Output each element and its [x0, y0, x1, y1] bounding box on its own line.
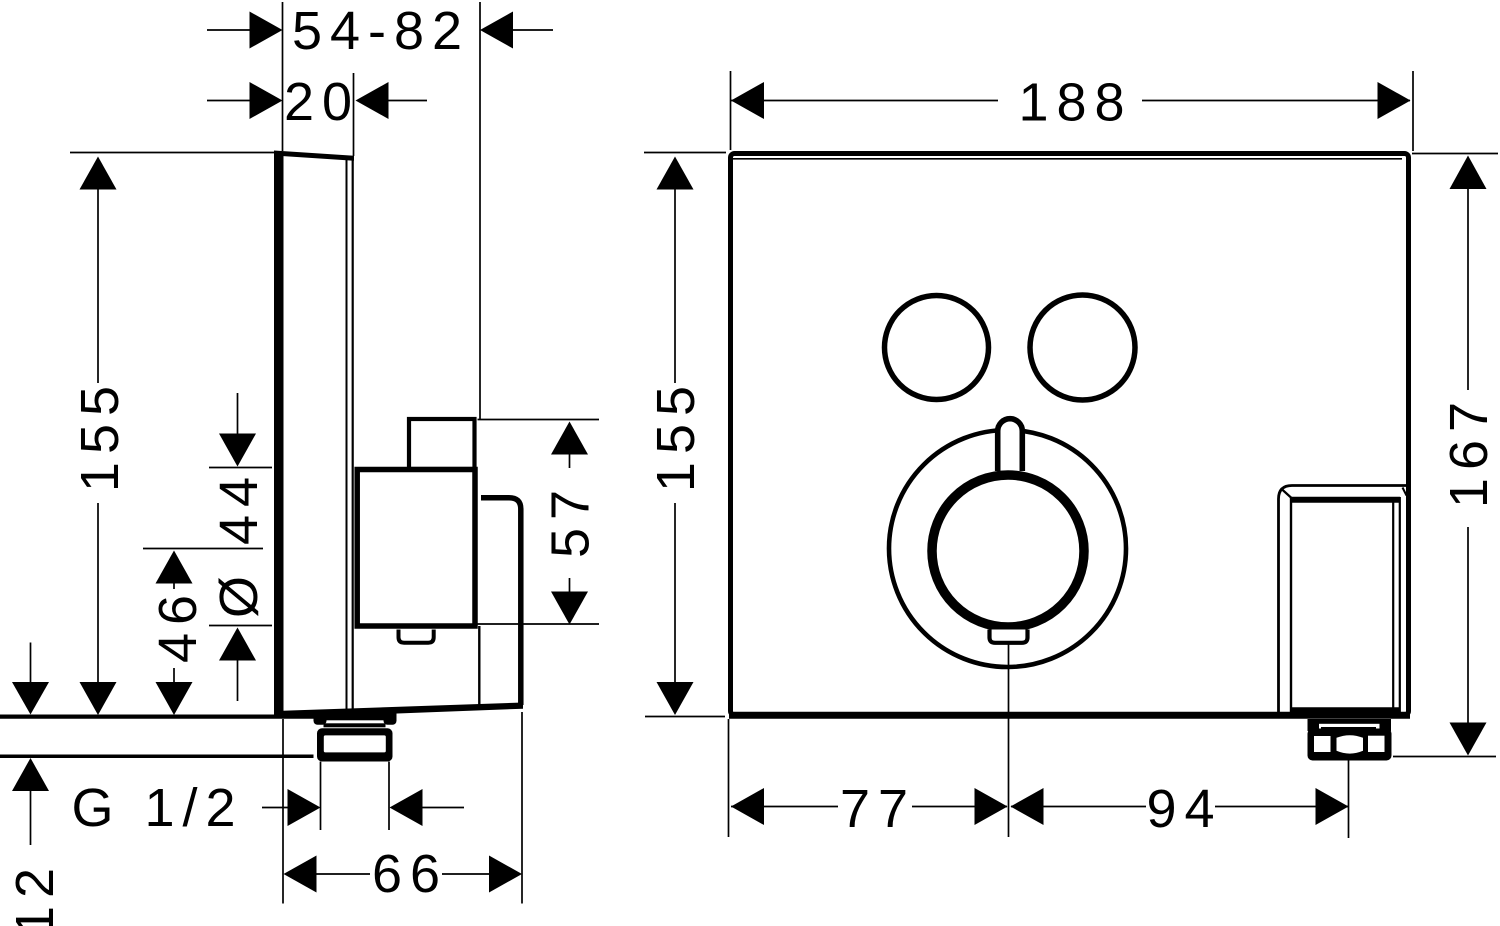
arrow 77 right (to centre) — [975, 788, 1008, 825]
arrow 57 up — [551, 422, 588, 455]
dim line 155 left upper segment — [97, 189, 99, 383]
dim line 66 right segment — [442, 873, 490, 875]
dim line 12 lower tail — [30, 791, 32, 845]
holder face left edge — [1290, 497, 1292, 712]
thermostat knob outer ring — [889, 430, 1126, 667]
dim line 155 left lower segment — [97, 503, 99, 682]
dim line 94 segment a — [1011, 806, 1146, 808]
side view: wall line lower (12mm offset) — [0, 754, 314, 758]
thermostat knob bottom grip tab — [990, 630, 1028, 643]
connector: rim line — [324, 723, 386, 727]
nut hex body — [1308, 729, 1392, 761]
dim line 188 left segment — [731, 100, 998, 102]
arrow 46 down — [156, 682, 193, 715]
dim line 155 right lower — [674, 503, 676, 682]
dim line 57 upper tail — [569, 454, 571, 468]
extension line y=624 (57 bottom) — [478, 623, 600, 625]
dim line 57 lower tail — [569, 578, 571, 592]
plate: outer right edge line — [352, 159, 354, 711]
valve body: rear housing left thin edge — [478, 626, 480, 709]
dim line 167 upper — [1467, 189, 1469, 390]
arrow 155 left down — [80, 682, 117, 715]
nut collar right side — [1380, 719, 1392, 731]
holder face outer right line — [1399, 497, 1401, 712]
plate+body: bottom slanted edge — [275, 703, 523, 719]
svg-text:54-82: 54-82 — [292, 1, 470, 61]
svg-text:12: 12 — [5, 860, 65, 926]
holder face inner right line — [1392, 500, 1394, 709]
dim line 46 upper segment — [173, 583, 175, 589]
arrow 167 down — [1450, 723, 1487, 756]
valve body: bottom clip tab — [399, 630, 434, 643]
holder face bottom edge — [1291, 707, 1400, 713]
connector: flange band — [314, 712, 397, 720]
dim line 12 upper tail — [30, 643, 32, 683]
select button right — [1030, 295, 1135, 400]
front panel top inner bevel line — [733, 158, 1402, 160]
arrow 155 left up — [80, 157, 117, 190]
arrow 77 left — [731, 788, 764, 825]
connector: threaded ring inner face — [324, 735, 386, 752]
front panel bottom edge thick — [729, 712, 1410, 719]
arrow 46 up — [156, 551, 193, 584]
extension line x=283 (66 left) — [282, 719, 284, 904]
holder top-right bevel — [1403, 488, 1407, 496]
arrow 94 right — [1316, 788, 1349, 825]
svg-text:46: 46 — [148, 587, 208, 663]
dim line 94 segment b — [1215, 806, 1348, 808]
arrow 155 right up — [657, 157, 694, 190]
extension line y=467.5 (Ø44 top) — [209, 467, 272, 469]
holder face top edge — [1291, 497, 1401, 503]
arrow 20 right — [356, 82, 389, 119]
nut neck bar — [1321, 727, 1376, 732]
dim line 20 left tail — [207, 100, 250, 102]
nut right facet window — [1368, 736, 1385, 752]
extension line 167 bottom — [1393, 756, 1496, 758]
arrow G1/2 left (right-pointing) — [288, 789, 321, 826]
arrow 12 top (down) — [12, 682, 49, 715]
dim line 167 lower — [1467, 527, 1469, 723]
svg-text:20: 20 — [284, 72, 360, 132]
dim line 77 segment b — [912, 806, 1007, 808]
arrow Ø44 top (down) — [219, 434, 256, 467]
dim line 20 right tail — [389, 100, 428, 102]
svg-text:155: 155 — [70, 378, 130, 492]
svg-text:66: 66 — [372, 844, 448, 904]
extension line 155 right bottom — [645, 716, 725, 718]
arrow 54-82 left — [250, 12, 283, 49]
dim line 188 right segment — [1142, 100, 1410, 102]
thermostat knob index notch — [998, 419, 1023, 471]
centreline nut — [1348, 759, 1350, 838]
front panel outline — [731, 154, 1409, 716]
extension line y=548.5 (46 top / valve centre) — [143, 548, 263, 550]
arrow 66 right — [489, 856, 522, 893]
arrow 188 left — [731, 82, 764, 119]
plate: left (wall) edge — [274, 152, 284, 718]
extension line 188 right / 167 top corner — [1412, 71, 1414, 151]
nut collar flange — [1308, 719, 1392, 724]
arrow 57 down — [551, 592, 588, 625]
svg-text:57: 57 — [541, 482, 601, 558]
connector: right shoulder — [384, 714, 397, 725]
svg-text:167: 167 — [1439, 394, 1499, 508]
connector: threaded ring outer — [317, 728, 393, 761]
arrow 12 bottom (up) — [12, 758, 49, 791]
connector: left shoulder — [314, 714, 327, 725]
extension line 188 left — [730, 71, 732, 150]
arrow G1/2 right (left-pointing) — [390, 789, 423, 826]
extension line x=353.5 (plate back, 20 right) — [353, 73, 355, 156]
arrow 66 left — [284, 856, 317, 893]
dim line Ø44 bottom tail — [237, 660, 239, 701]
extension line x=282.5 (plate front face, 54-82 left) — [282, 2, 284, 151]
centreline knob — [1008, 644, 1010, 837]
valve body: main box — [357, 470, 475, 627]
nut left facet window — [1314, 736, 1331, 752]
svg-text:G 1/2: G 1/2 — [71, 778, 243, 838]
arrow 20 left — [250, 82, 283, 119]
arrow 167 up — [1450, 156, 1487, 190]
select button left — [885, 296, 989, 400]
dim line 155 right upper — [674, 189, 676, 383]
dim line G1/2 left segment — [262, 807, 288, 809]
holder outer contour — [1279, 486, 1407, 717]
extension line x=522 (66 right) — [521, 712, 523, 904]
dim line 66 left segment — [316, 873, 370, 875]
nut centre facet window — [1337, 735, 1364, 753]
arrow 94 left (from centre) — [1011, 788, 1044, 825]
extension line 167 top — [1412, 153, 1498, 155]
side view: wall line upper (plate bottom level) — [0, 714, 314, 718]
extension line x=389 (G1/2 right / pipe) — [388, 762, 390, 831]
svg-text:188: 188 — [1018, 73, 1132, 133]
extension line top of plate for 155 left — [70, 152, 276, 154]
nut collar left side — [1308, 719, 1320, 731]
plate: front face right line — [346, 158, 348, 711]
dim line 54-82 left tail — [207, 29, 250, 31]
extension line 155 right top — [644, 152, 726, 154]
extension line y=625.5 (Ø44 bottom) — [209, 625, 272, 627]
svg-text:155: 155 — [646, 378, 706, 492]
svg-text:94: 94 — [1146, 779, 1222, 839]
svg-text:Ø 44: Ø 44 — [209, 469, 269, 618]
dim line 54-82 right tail — [513, 29, 553, 31]
extension line x=320.5 (G1/2 left / pipe) — [320, 762, 322, 831]
dim line Ø44 top tail — [237, 393, 239, 434]
holder top-left bevel — [1281, 489, 1292, 499]
dim line 77 segment a — [731, 806, 838, 808]
extension line x=480 (54-82 right / body front) — [479, 2, 481, 420]
arrow 188 right — [1378, 82, 1411, 119]
plate: top edge — [274, 151, 354, 161]
valve body: rear housing top and right edge — [481, 498, 521, 705]
valve body: upper small box — [409, 419, 475, 469]
arrow 54-82 right — [480, 12, 513, 49]
extension line 77 left (panel edge) — [728, 719, 730, 837]
extension line y=419.5 (57 top) — [478, 419, 600, 421]
arrow Ø44 bottom (up) — [219, 628, 256, 661]
dim line G1/2 right tail — [423, 807, 465, 809]
thermostat knob inner ring — [932, 475, 1084, 627]
svg-text:77: 77 — [840, 779, 916, 839]
arrow 155 right down — [657, 682, 694, 715]
dim line 46 lower segment — [173, 668, 175, 682]
